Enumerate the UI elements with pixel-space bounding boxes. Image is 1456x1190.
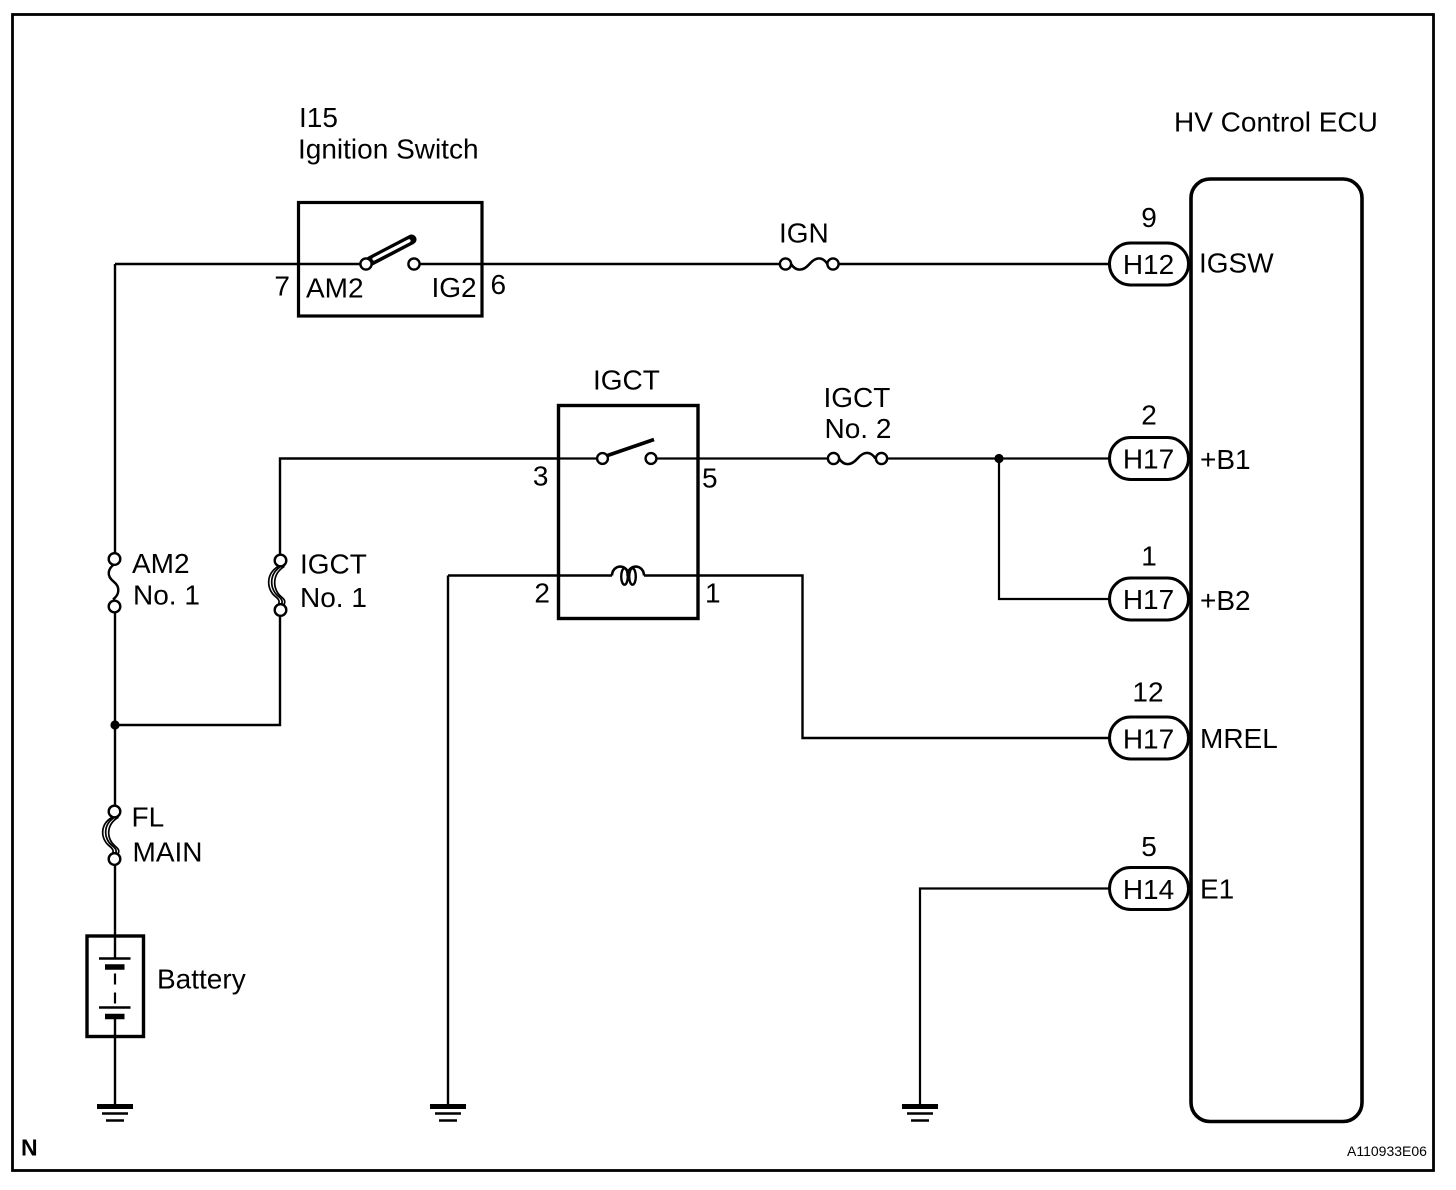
ignition switch contact IG2 pin 6: [408, 258, 419, 269]
svg-text:5: 5: [702, 463, 718, 494]
relay coil wire pin 2 to pin 1: [448, 574, 612, 576]
ignition switch contact AM2 pin 7: [360, 258, 371, 269]
svg-text:H17: H17: [1123, 584, 1174, 615]
fuse IGCT No. 1 (fusible link, triple wave): [269, 566, 279, 605]
svg-text:12: 12: [1132, 677, 1163, 708]
battery: [87, 936, 144, 1037]
svg-text:5: 5: [1141, 831, 1157, 862]
svg-text:E1: E1: [1200, 874, 1234, 905]
svg-text:+B1: +B1: [1200, 444, 1251, 475]
svg-text:IGCT: IGCT: [824, 382, 891, 413]
svg-text:3: 3: [533, 461, 549, 492]
svg-text:MAIN: MAIN: [133, 837, 203, 868]
svg-text:No. 1: No. 1: [300, 582, 367, 613]
svg-text:Battery: Battery: [157, 964, 246, 995]
svg-text:7: 7: [274, 271, 290, 302]
ground (E1): [902, 1107, 938, 1121]
battery plate - short thick (lower): [105, 1014, 125, 1020]
wire battery to ground: [114, 1019, 116, 1104]
svg-text:2: 2: [534, 578, 550, 609]
relay IGCT box: [559, 406, 699, 619]
battery plate - short thick: [105, 964, 125, 970]
svg-text:AM2: AM2: [132, 548, 190, 579]
svg-text:2: 2: [1141, 400, 1157, 431]
svg-text:No. 1: No. 1: [133, 580, 200, 611]
wire: left vertical from top wire down to battery: [114, 264, 116, 554]
svg-text:Ignition Switch: Ignition Switch: [298, 134, 479, 165]
svg-text:H17: H17: [1123, 444, 1174, 475]
ignition switch box I15: [299, 203, 483, 317]
wire IGSW: top horizontal from node at x115 to H12: [115, 263, 360, 265]
svg-text:H12: H12: [1123, 249, 1174, 280]
relay lever: [608, 440, 655, 456]
svg-text:9: 9: [1141, 202, 1157, 233]
battery plate + long: [99, 957, 131, 959]
svg-text:AM2: AM2: [306, 273, 364, 304]
svg-text:HV Control ECU: HV Control ECU: [1174, 107, 1378, 138]
svg-text:IGN: IGN: [779, 218, 829, 249]
connector H17 pin 2 (+B1): [1110, 438, 1189, 480]
svg-text:1: 1: [1141, 541, 1157, 572]
svg-text:IGCT: IGCT: [593, 365, 660, 396]
svg-text:I15: I15: [299, 102, 338, 133]
svg-text:H14: H14: [1123, 874, 1174, 905]
HV Control ECU body U1: [1191, 179, 1362, 1122]
wire fuse to +B1: [887, 457, 1110, 459]
wire E1 to ground: [920, 889, 1110, 1105]
svg-text:IGSW: IGSW: [1199, 248, 1274, 279]
connector H12 pin 9: [1110, 243, 1189, 285]
wire junction down to +B2: [999, 459, 1110, 600]
connector H17 pin 12 (MREL): [1110, 717, 1189, 759]
svg-text:IG2: IG2: [432, 272, 477, 303]
relay contact circles: [597, 453, 608, 464]
svg-text:MREL: MREL: [1200, 723, 1278, 754]
svg-text:No. 2: No. 2: [825, 413, 892, 444]
fuse AM2 No. 1: [109, 564, 119, 600]
svg-text:FL: FL: [132, 802, 165, 833]
svg-text:H17: H17: [1123, 724, 1174, 755]
svg-text:6: 6: [491, 269, 507, 300]
fuse IGN: [791, 258, 828, 269]
connector H17 pin 1 (+B2): [1110, 578, 1189, 620]
battery dashed center: [114, 974, 116, 1006]
node junction at (115,725): [110, 720, 119, 729]
svg-text:1: 1: [705, 578, 721, 609]
relay contact wire pin 3 to pin 5: [559, 457, 598, 459]
node junction at (999,458.5): [994, 454, 1003, 463]
svg-text:A110933E06: A110933E06: [1347, 1143, 1427, 1159]
ground (relay coil): [430, 1107, 466, 1121]
wire: junction to IGCT No.1 branch: [115, 617, 280, 726]
fuse IGCT No. 2: [839, 453, 876, 464]
svg-text:+B2: +B2: [1200, 585, 1251, 616]
ignition switch lever: [371, 240, 412, 262]
relay coil L1: [612, 567, 629, 576]
fuse FL MAIN (fusible link): [103, 817, 113, 854]
svg-text:N: N: [21, 1135, 38, 1161]
battery plate + long (lower): [99, 1006, 131, 1008]
connector H14 pin 5 (E1): [1110, 868, 1189, 910]
ground (battery): [97, 1107, 133, 1121]
wire relay pin2 to ground stem: [447, 576, 449, 1105]
svg-text:IGCT: IGCT: [300, 549, 367, 580]
